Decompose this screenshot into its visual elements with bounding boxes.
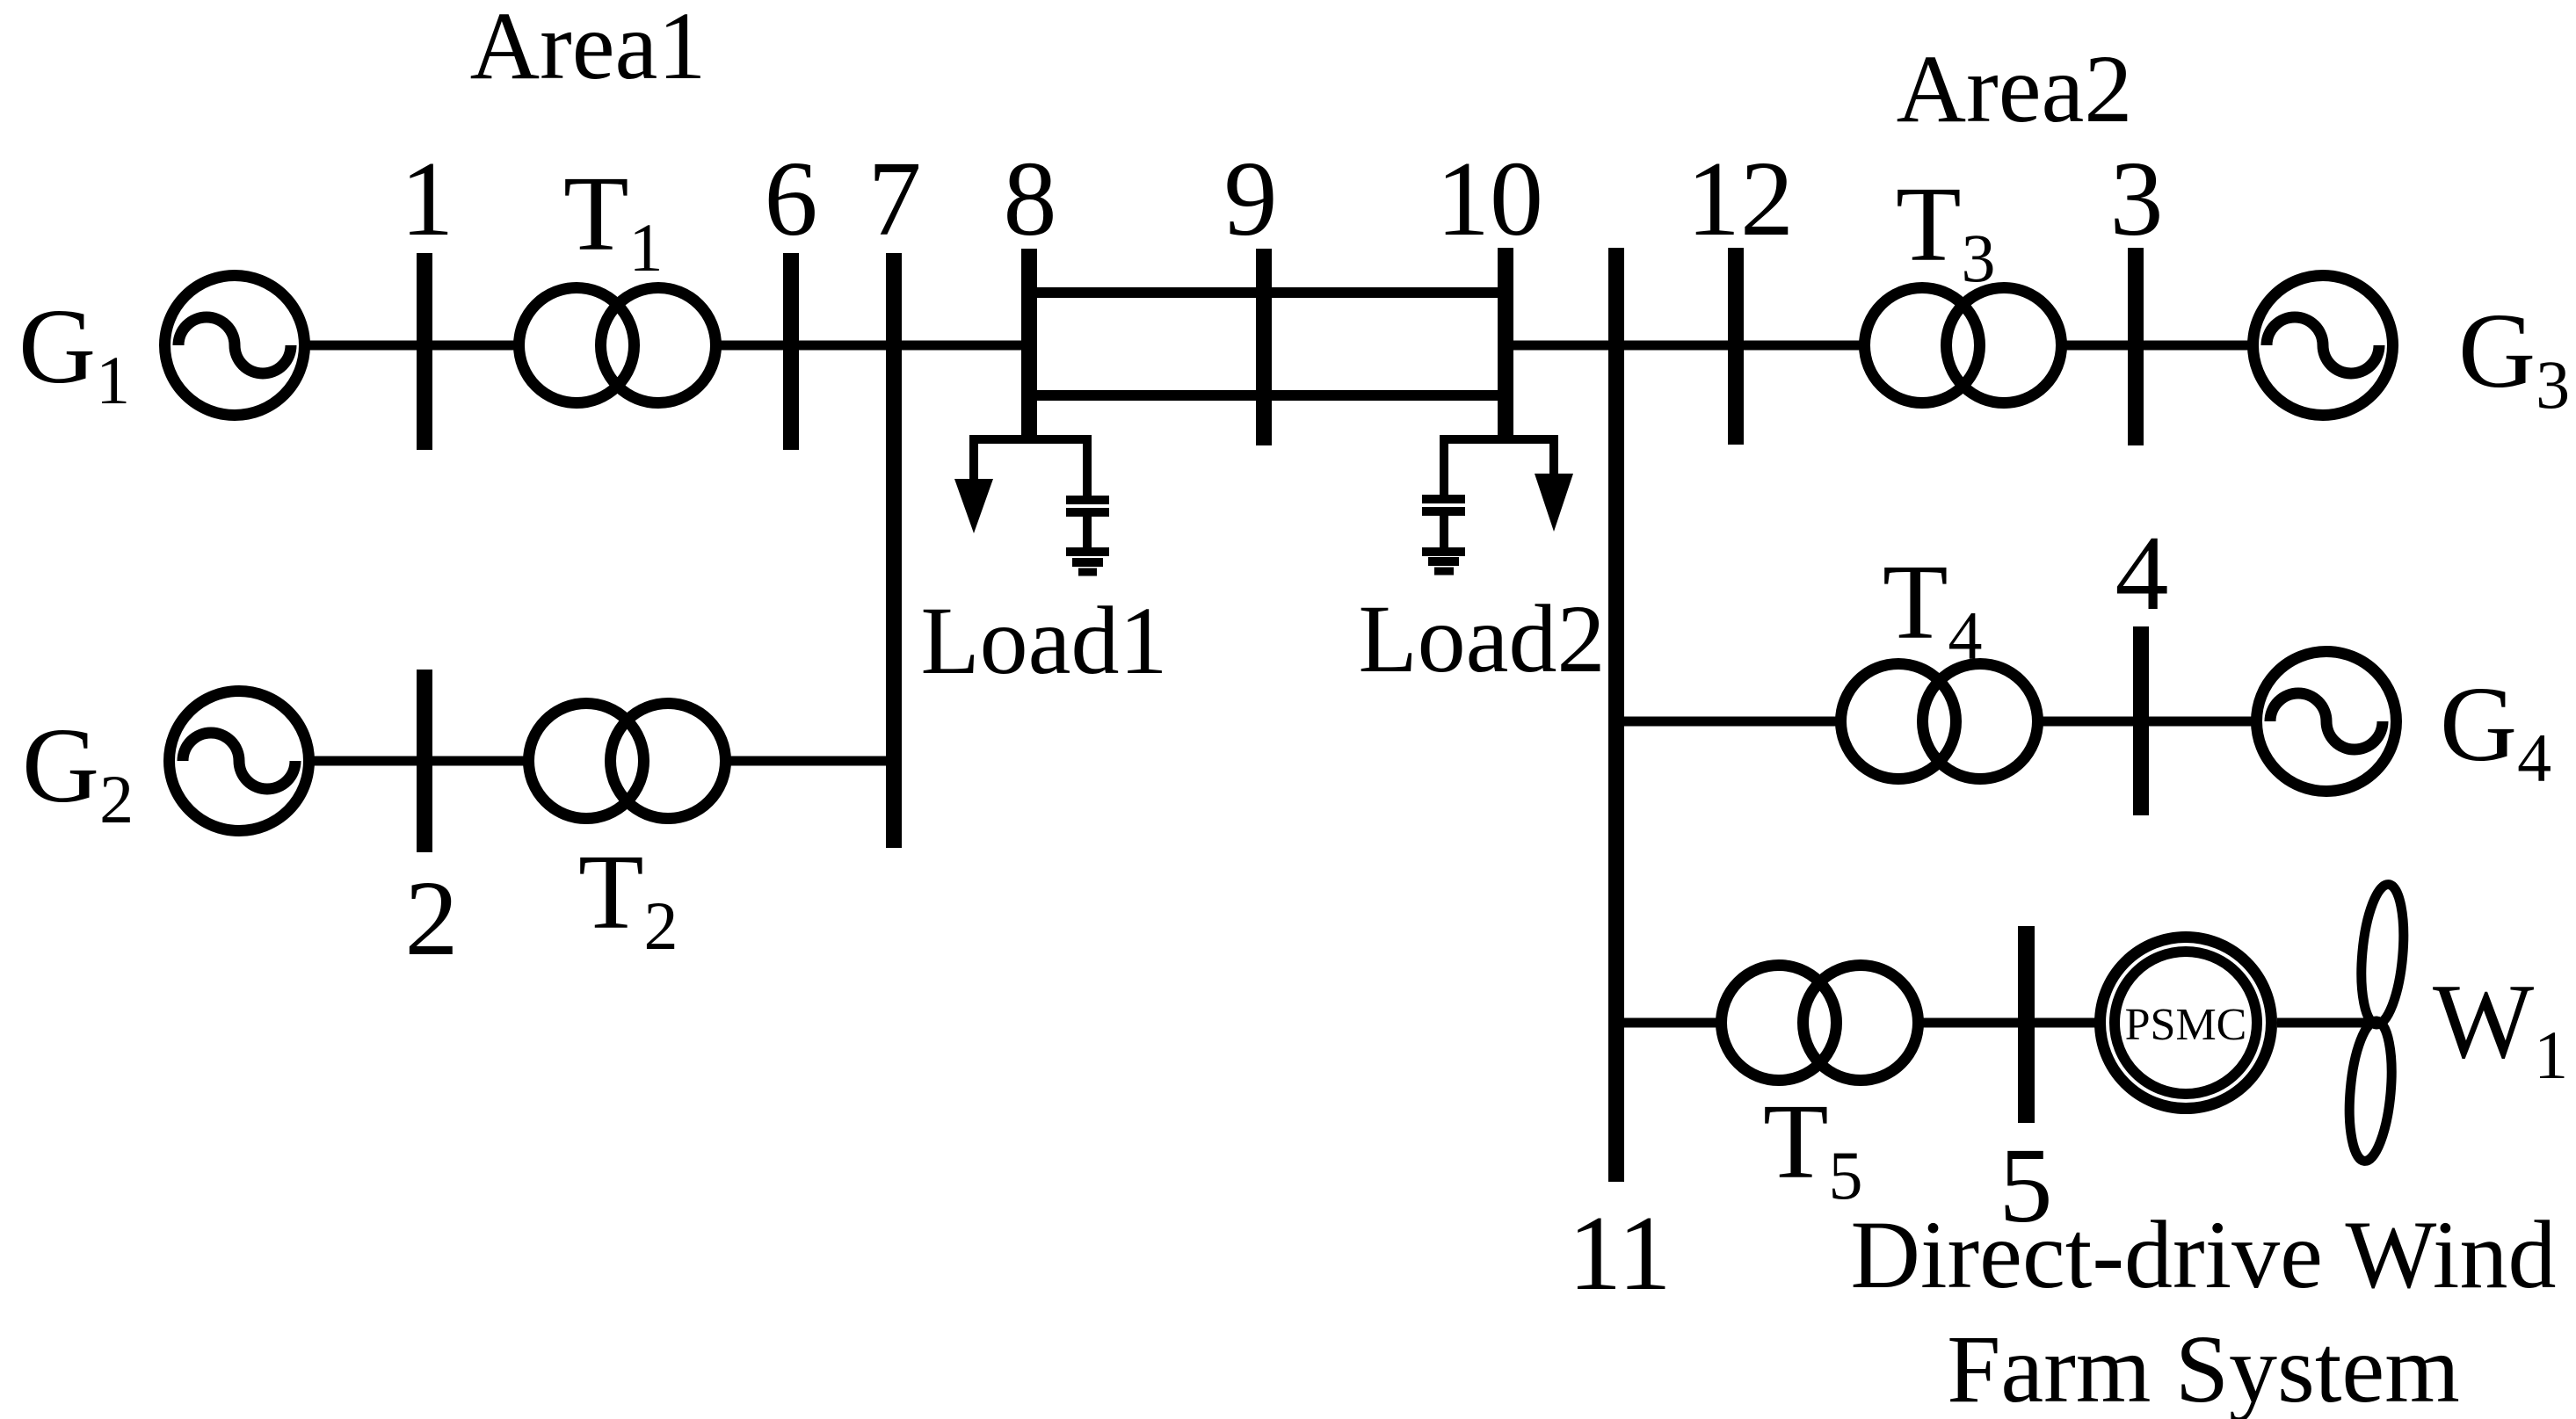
transformer T2 <box>529 704 726 819</box>
wire bus 11 to T4 <box>1616 717 1837 727</box>
transformer T4 <box>1841 664 2038 779</box>
transmission line 8-9-10 upper conductor <box>1029 287 1506 298</box>
bus 2 <box>417 670 432 852</box>
bus 3 <box>2128 248 2144 445</box>
bus 10 <box>1498 248 1513 443</box>
bus 11 (vertical tie bus) <box>1608 248 1624 1182</box>
wire T3 to G3 <box>2062 341 2250 351</box>
load 2 arrow <box>1535 439 1573 532</box>
svg-text:11: 11 <box>1568 1194 1671 1313</box>
generator G4 <box>2257 652 2397 792</box>
svg-text:Direct-drive Wind: Direct-drive Wind <box>1851 1201 2557 1308</box>
wire G2 to T2 <box>309 757 525 766</box>
wire bus 10 to T3 <box>1506 341 1865 351</box>
bus 6 <box>783 253 799 450</box>
svg-text:12: 12 <box>1687 140 1794 258</box>
bus 1 <box>417 253 432 450</box>
wire PSMC to turbine hub <box>2277 1018 2376 1028</box>
transformer T3 <box>1865 288 2062 403</box>
generator G2 <box>170 691 309 831</box>
svg-text:6: 6 <box>765 140 818 258</box>
bus 12 <box>1728 248 1744 445</box>
svg-text:1: 1 <box>401 140 454 258</box>
load 1 arrow <box>954 439 993 533</box>
generator G3 <box>2253 276 2393 416</box>
transformer T1 <box>519 288 716 403</box>
load 1 ground <box>1066 552 1109 572</box>
svg-text:8: 8 <box>1004 140 1057 258</box>
wire T1 to bus 8 <box>716 341 1029 351</box>
load 1 shunt capacitor <box>1066 439 1109 547</box>
svg-text:7: 7 <box>868 140 922 258</box>
load 2 connection wire <box>1444 439 1554 444</box>
wind generator W1 (PSMC) <box>2101 938 2272 1109</box>
bus 5 <box>2018 926 2035 1123</box>
svg-text:Area2: Area2 <box>1897 35 2133 142</box>
load 2 ground <box>1422 552 1465 571</box>
svg-text:Farm System: Farm System <box>1947 1315 2460 1419</box>
svg-text:Load2: Load2 <box>1358 585 1605 692</box>
generator G1 <box>165 276 305 416</box>
transmission line 8-9-10 lower conductor <box>1029 390 1506 401</box>
wire T2 to bus 7 <box>726 757 894 766</box>
svg-text:3: 3 <box>2110 140 2164 258</box>
bus 4 <box>2133 626 2149 815</box>
bus 7 <box>886 253 902 848</box>
svg-text:Area1: Area1 <box>470 0 707 99</box>
wind turbine blades W1 <box>2344 883 2408 1163</box>
svg-text:PSMC: PSMC <box>2125 1000 2247 1050</box>
load 2 shunt capacitor <box>1422 439 1465 547</box>
svg-text:4: 4 <box>2115 514 2169 633</box>
svg-text:2: 2 <box>405 859 459 978</box>
wire T4 to G4 <box>2038 717 2253 727</box>
wire bus 11 to T5 <box>1616 1018 1718 1028</box>
svg-text:Load1: Load1 <box>920 587 1167 694</box>
wire G1 to T1 <box>305 341 519 351</box>
bus 8 <box>1021 249 1037 444</box>
bus 9 <box>1256 249 1272 445</box>
svg-text:9: 9 <box>1224 140 1278 258</box>
load 1 connection wire <box>974 439 1087 444</box>
wire T5 to bus 5 <box>1919 1018 2026 1028</box>
wire bus 5 to PSMC <box>2026 1018 2101 1028</box>
transformer T5 <box>1722 966 1919 1081</box>
svg-text:10: 10 <box>1436 140 1543 258</box>
